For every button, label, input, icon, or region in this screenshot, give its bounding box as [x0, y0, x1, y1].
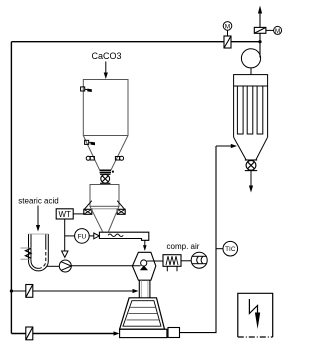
- motor M4 above valve V4: [223, 22, 232, 36]
- wire WT to FU: [65, 235, 75, 237]
- filter bag 1: [237, 86, 243, 134]
- support brace right: [117, 201, 125, 210]
- svg-text:CaCO3: CaCO3: [91, 51, 121, 61]
- support brace left: [84, 201, 92, 210]
- wire filter inlet: [216, 145, 232, 147]
- wire pump to mill nozzle: [71, 265, 140, 267]
- arrow into mill base: [114, 331, 120, 335]
- instrument FU: [75, 229, 90, 244]
- air heater box: [163, 255, 181, 267]
- wire line A to mill neck: [11, 290, 133, 292]
- wire right vertical riser: [180, 146, 217, 333]
- filter cone: [234, 137, 268, 160]
- svg-text:WT: WT: [58, 210, 71, 219]
- wire junction down to fan: [259, 42, 261, 58]
- wire top horizontal main: [11, 41, 260, 43]
- mill outlet box: [168, 328, 180, 338]
- valve V2 on line B: [26, 327, 33, 340]
- wire exhaust vertical: [259, 12, 261, 42]
- svg-text:comp. air: comp. air: [167, 242, 200, 251]
- stearic vessel inner wall: [31, 234, 38, 268]
- vibrator left: [86, 156, 94, 160]
- silo CaCO3 body: [83, 80, 128, 136]
- classifier louvers: [127, 307, 160, 320]
- nozzle in mill: [141, 260, 147, 266]
- valve V3 on exhaust: [254, 27, 266, 33]
- classifier trapezoid inner: [123, 301, 161, 327]
- stearic vessel rim: [29, 233, 49, 235]
- vibrator right: [115, 156, 123, 160]
- mill hexagon: [132, 252, 155, 280]
- filter bag 3: [257, 86, 263, 134]
- svg-text:stearic acid: stearic acid: [18, 197, 58, 206]
- wire filter discharge arrow: [250, 171, 252, 187]
- stearic vessel outer wall: [29, 234, 49, 271]
- arrow exhaust up: [258, 6, 262, 14]
- svg-text:TIC: TIC: [225, 246, 236, 253]
- wire left vertical main: [10, 42, 12, 334]
- svg-text:FU: FU: [78, 233, 87, 240]
- motor M3 right of valve V3: [266, 26, 282, 34]
- instrument TIC: [216, 241, 238, 256]
- level sensor S1: [81, 87, 92, 92]
- wire nozzle to heater: [147, 260, 163, 262]
- mill neck: [139, 280, 150, 298]
- mill base: [120, 329, 167, 337]
- wire FU to feeder with open arrow: [89, 235, 94, 237]
- weigh hopper cone: [90, 206, 119, 231]
- level sensor S2: [85, 140, 95, 145]
- open arrow down to pump: [62, 251, 68, 257]
- wire feeder to mill arrow: [144, 240, 146, 246]
- weigh hopper support beam: [92, 208, 117, 210]
- compressor: [191, 252, 207, 268]
- node junction dot exhaust: [258, 40, 261, 43]
- bag filter header: [234, 75, 268, 86]
- rotary valve under filter: [245, 160, 257, 171]
- load cell left: [84, 209, 92, 214]
- svg-text:M: M: [275, 28, 280, 35]
- screw squiggle: [108, 234, 123, 237]
- rotary valve silo: [100, 174, 111, 183]
- valve V1 on line A: [26, 285, 33, 298]
- filter body walls: [234, 86, 268, 137]
- flexible joint: [100, 170, 111, 172]
- fan blower circle: [241, 49, 260, 68]
- node junction dot left: [10, 289, 13, 292]
- arrow into mill neck: [133, 289, 139, 293]
- classifier trapezoid outer: [120, 298, 165, 329]
- valve V4 on top line: [224, 36, 231, 48]
- arrow CaCO3 feed: [105, 62, 107, 74]
- screw feeder body: [99, 232, 148, 240]
- lightning bolt: [249, 299, 257, 314]
- pump: [59, 260, 71, 272]
- heater coil on vessel: [21, 248, 32, 259]
- svg-text:M: M: [225, 23, 230, 30]
- wire heater to compressor: [181, 260, 191, 262]
- wire bottom line B: [11, 333, 116, 335]
- power supply box: [238, 293, 273, 337]
- instrument WT box: [56, 209, 73, 219]
- wire fan to filter header: [250, 68, 252, 75]
- silo cone: [83, 136, 128, 171]
- wire WT down: [64, 219, 66, 251]
- filter bag 2: [247, 86, 253, 134]
- wire vessel to pump: [47, 265, 60, 267]
- wire WT to load cell: [73, 213, 84, 215]
- arrow stearic feed: [37, 206, 39, 227]
- weigh hopper body: [90, 185, 119, 207]
- load cell right: [117, 209, 125, 214]
